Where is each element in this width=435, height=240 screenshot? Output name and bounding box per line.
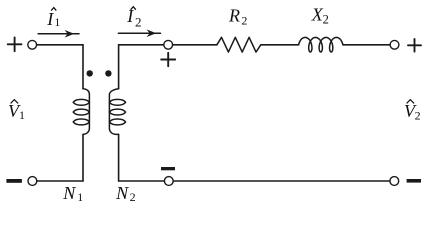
- label I2: [126, 6, 141, 29]
- plus sign primary terminal: [8, 37, 22, 51]
- resistor R2: [217, 37, 261, 52]
- minus sign output: [407, 179, 421, 183]
- minus sign primary terminal: [6, 179, 22, 183]
- wire primary vertical top: [82, 45, 84, 89]
- wire primary vertical bottom: [82, 134, 84, 181]
- wire inductor to terminal: [343, 44, 390, 46]
- wire to resistor: [173, 44, 217, 46]
- wire resistor to inductor: [261, 44, 299, 46]
- label I1: [46, 8, 60, 30]
- svg-text:I: I: [46, 9, 54, 29]
- svg-text:2: 2: [323, 13, 329, 27]
- plus sign output: [408, 39, 421, 52]
- label N1: [62, 183, 83, 204]
- svg-text:R: R: [228, 6, 240, 26]
- svg-text:N: N: [115, 183, 129, 203]
- svg-text:2: 2: [130, 190, 136, 204]
- terminal circle top-left: [28, 40, 37, 49]
- wire secondary vertical bottom: [118, 134, 120, 181]
- wire bottom-left: [37, 180, 83, 182]
- label V1: [8, 100, 25, 122]
- svg-text:2: 2: [415, 109, 421, 123]
- label V2: [404, 100, 421, 123]
- svg-text:2: 2: [135, 15, 142, 30]
- current arrow I2: [118, 29, 160, 37]
- svg-text:2: 2: [241, 14, 247, 28]
- winding N1 coil: [73, 89, 89, 135]
- terminal circle bottom-left: [28, 177, 37, 186]
- label N2: [115, 183, 136, 204]
- wire top-left horizontal: [37, 44, 83, 46]
- label X2: [311, 4, 329, 26]
- label R2: [228, 6, 247, 28]
- terminal circle top-right: [390, 40, 399, 49]
- inductor X2: [299, 37, 343, 52]
- wire bottom to output: [173, 180, 390, 182]
- plus sign secondary inner: [161, 53, 175, 66]
- current arrow I1: [38, 30, 79, 38]
- wire secondary top to terminal: [119, 44, 164, 46]
- polarity dot left: [87, 70, 93, 76]
- winding N2 coil: [109, 89, 125, 135]
- terminal circle bottom-right: [390, 177, 399, 186]
- polarity dot right: [105, 70, 111, 76]
- wire bottom secondary left: [119, 180, 165, 182]
- terminal circle top-mid: [164, 40, 173, 49]
- minus sign secondary inner: [161, 167, 175, 170]
- svg-text:1: 1: [77, 190, 83, 204]
- svg-text:1: 1: [55, 17, 61, 29]
- svg-text:1: 1: [19, 108, 25, 122]
- wire secondary vertical top: [118, 45, 120, 89]
- terminal circle bottom-mid: [164, 177, 173, 186]
- svg-text:N: N: [62, 183, 76, 203]
